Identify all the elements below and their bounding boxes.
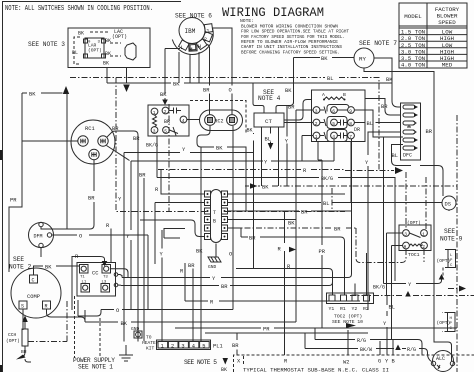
svg-text:G: G	[378, 359, 381, 365]
svg-text:T3: T3	[103, 276, 108, 280]
svg-text:M: M	[189, 47, 192, 53]
wire BK/G lower with arrow	[350, 295, 474, 297]
wire B stub	[392, 340, 394, 355]
svg-text:T1: T1	[80, 276, 85, 280]
wire plug pin3 BR	[228, 210, 353, 212]
svg-text:PL1: PL1	[213, 344, 223, 350]
svg-text:T: T	[213, 210, 216, 216]
DFC pin 3	[403, 121, 415, 125]
svg-text:BK: BK	[386, 77, 393, 83]
svg-text:4: 4	[192, 343, 195, 349]
svg-text:S: S	[21, 304, 24, 310]
svg-text:TOC2 (OPT): TOC2 (OPT)	[334, 314, 362, 320]
wire BK from RC2	[197, 126, 246, 211]
svg-text:R/G: R/G	[357, 338, 366, 344]
svg-text:Y2: Y2	[352, 306, 358, 312]
svg-text:BR: BR	[139, 173, 146, 179]
svg-text:BK: BK	[45, 265, 52, 271]
svg-text:3: 3	[404, 231, 407, 237]
svg-text:BR: BR	[203, 88, 210, 94]
compressor COMP	[11, 268, 61, 318]
terminal R	[43, 301, 51, 309]
wire BR riser 2	[143, 178, 145, 342]
svg-text:R1: R1	[340, 306, 346, 312]
wire plug pin1 right	[228, 193, 346, 195]
terminal L	[179, 40, 190, 50]
terminal M	[189, 43, 197, 51]
CC terminal T1	[80, 265, 89, 274]
defrost sensor DS	[442, 196, 456, 210]
blower control relay	[148, 105, 189, 136]
svg-text:BK/G: BK/G	[373, 285, 385, 291]
svg-text:BR: BR	[381, 104, 388, 110]
field thermostat BR dash-dot	[233, 228, 356, 258]
wire R low-voltage	[185, 211, 360, 355]
svg-text:3: 3	[153, 128, 156, 134]
wire COMP S drop	[22, 309, 24, 330]
DR pin 1	[313, 132, 320, 139]
cabinet panel border (dash-dot) top	[70, 78, 379, 170]
wire RY coil feed BK	[294, 58, 355, 104]
wire R into CC T3	[72, 257, 105, 311]
wire Y to thermostat	[386, 296, 388, 355]
svg-text:BK: BK	[221, 367, 227, 372]
indoor blower motor IBM	[172, 18, 213, 55]
DR pin 3	[313, 107, 320, 114]
wire CCH dash-dot link	[28, 300, 67, 342]
svg-text:SEE NOTE 6: SEE NOTE 6	[175, 13, 212, 20]
DR pin 5	[331, 119, 338, 126]
blower relay RY	[354, 48, 374, 68]
svg-text:BK: BK	[321, 56, 328, 62]
wire R/G run	[315, 328, 422, 355]
field arrow on right border	[459, 286, 466, 292]
RC2 terminal 1	[205, 115, 216, 126]
svg-text:4: 4	[332, 134, 335, 140]
svg-text:H: H	[404, 244, 407, 250]
wire BR riser to PL1	[192, 269, 194, 342]
wire TOC1 pin3 left lead	[387, 233, 403, 296]
blower speed table	[399, 3, 467, 69]
svg-text:TYPICAL THERMOSTAT SUB-BASE N.: TYPICAL THERMOSTAT SUB-BASE N.E.C. CLASS…	[243, 368, 389, 372]
svg-text:BK: BK	[285, 88, 292, 94]
svg-text:BLOWER MOTOR WIRING CONNECTION: BLOWER MOTOR WIRING CONNECTION SHOWN	[241, 23, 338, 29]
contact arm	[170, 127, 179, 136]
wire Y horizontal to DR pin 4	[131, 161, 334, 310]
terminal C	[30, 275, 38, 283]
svg-text:NOTE 9: NOTE 9	[440, 236, 463, 243]
svg-text:DFM: DFM	[34, 234, 43, 240]
svg-text:IBM: IBM	[185, 28, 196, 35]
svg-text:BL: BL	[323, 201, 329, 207]
svg-text:3: 3	[181, 343, 184, 349]
wire DFC pin 6 BL to DS	[392, 145, 444, 197]
wire to plug pin 5	[164, 229, 185, 239]
svg-text:A: A	[322, 92, 325, 98]
plug pins right	[222, 191, 228, 240]
RC1 terminal C	[89, 149, 99, 159]
svg-text:GND: GND	[208, 264, 217, 270]
wire plug pin4 to BK riser	[228, 110, 297, 322]
svg-text:3: 3	[315, 108, 318, 114]
wire DR pin 8 to DFC pin 3 BL	[355, 122, 401, 124]
panel border R dash-dot	[158, 170, 394, 171]
svg-text:8: 8	[349, 121, 352, 127]
DR pin 8	[348, 119, 355, 126]
wire plug pin5 BR lower	[228, 228, 345, 295]
crankcase heater CCH (OPT)	[6, 316, 31, 363]
terminal 1	[204, 24, 213, 33]
svg-text:CCH: CCH	[8, 332, 17, 338]
ground symbol GND near CC	[208, 244, 221, 271]
svg-text:BK: BK	[196, 249, 203, 255]
wire PR left riser	[9, 93, 22, 272]
svg-text:BK: BK	[247, 128, 253, 134]
wire to plug pin 6	[140, 220, 205, 237]
svg-text:(OPT): (OPT)	[437, 320, 451, 326]
wire BK riser to PL1	[200, 147, 202, 342]
wire DR row feeds from left	[284, 100, 313, 162]
svg-text:TO: TO	[146, 335, 152, 341]
pin 5	[163, 127, 170, 134]
svg-text:W2: W2	[343, 360, 349, 366]
DFC pin 5	[403, 138, 415, 142]
wire DR col bottoms	[317, 139, 352, 328]
svg-text:NOTE 4: NOTE 4	[258, 95, 281, 102]
wire IBM M,H leads	[179, 52, 199, 83]
svg-text:O: O	[229, 88, 232, 94]
svg-text:B: B	[343, 92, 346, 98]
svg-text:CHART IN UNIT INSTALLATION INS: CHART IN UNIT INSTALLATION INSTRUCTIONS	[241, 44, 342, 50]
field wiring arrow BK	[223, 358, 229, 365]
wire BK see note 2 to CC	[33, 266, 80, 275]
wire RC1 H to left	[22, 140, 78, 142]
svg-text:BR: BR	[426, 129, 433, 135]
wire RC1 M to BR riser	[107, 131, 138, 342]
svg-text:MED: MED	[442, 62, 453, 69]
CC terminal L1	[81, 284, 90, 293]
RC2 terminal 2	[227, 115, 238, 126]
wire BK bus	[107, 82, 392, 84]
svg-text:PR: PR	[10, 198, 17, 204]
svg-text:CT: CT	[265, 118, 272, 125]
svg-text:BR: BR	[249, 236, 256, 242]
svg-text:1: 1	[161, 343, 164, 349]
svg-text:SEE NOTE 3: SEE NOTE 3	[28, 41, 65, 48]
liquid line sensor capsule	[125, 43, 136, 60]
svg-text:DR: DR	[354, 127, 360, 133]
run capacitor RC2	[200, 110, 243, 131]
wire relay pin4 to RC2	[187, 119, 200, 121]
svg-text:FOR LOW SPEED OPERATION.SEE TA: FOR LOW SPEED OPERATION.SEE TABLE AT RIG…	[241, 29, 349, 35]
pin 4	[180, 116, 187, 123]
svg-text:BR: BR	[221, 284, 228, 290]
cabinet panel border (dash-dot) left	[116, 78, 345, 212]
ambient limit control ALC	[431, 351, 454, 372]
svg-text:BR: BR	[133, 136, 140, 142]
RC1 terminal M	[98, 136, 108, 146]
earth ground symbol	[119, 345, 133, 361]
high pressure control (OPT)	[437, 313, 456, 332]
svg-text:BK: BK	[78, 31, 84, 37]
terminal 2	[203, 32, 213, 42]
DR pin 4	[331, 132, 338, 139]
svg-text:BK/G: BK/G	[146, 143, 158, 149]
plug pins left	[205, 191, 211, 240]
DR pin 7	[348, 132, 355, 139]
low pressure control (OPT)	[437, 250, 456, 279]
svg-text:5: 5	[164, 128, 167, 134]
svg-text:O: O	[116, 308, 119, 314]
defrost termination thermostat TOC1 (OPT)	[399, 220, 431, 258]
power supply leads L1	[74, 296, 76, 358]
svg-text:BK: BK	[216, 146, 223, 152]
contact capacitor mark	[169, 108, 181, 114]
wire DR coil B to DFC pin 2 BR	[365, 99, 401, 116]
svg-text:SPEED: SPEED	[438, 19, 456, 26]
svg-text:1: 1	[315, 134, 318, 140]
wire CC coil to Y bus	[118, 275, 122, 286]
svg-text:O: O	[79, 234, 82, 240]
wire TOC1 pin H left lead	[392, 246, 403, 340]
cabinet panel border (dash-dot) mid vertical	[168, 104, 170, 212]
defrost relay DR	[312, 90, 366, 142]
wire DFM bottom stub	[40, 248, 42, 257]
svg-text:7: 7	[349, 134, 352, 140]
svg-text:BR: BR	[334, 227, 341, 233]
svg-text:WIRING DIAGRAM: WIRING DIAGRAM	[222, 6, 324, 20]
wire R riser mid	[110, 229, 112, 263]
run capacitor RC1	[71, 120, 115, 164]
svg-text:PR: PR	[319, 249, 326, 255]
svg-text:REFER TO BLOWER AIR-FLOW PERFO: REFER TO BLOWER AIR-FLOW PERFORMANCE	[241, 39, 338, 45]
svg-text:BL: BL	[327, 76, 333, 82]
svg-text:COMP: COMP	[27, 294, 40, 300]
svg-text:(OPT): (OPT)	[112, 34, 127, 40]
svg-text:BR: BR	[288, 105, 295, 111]
svg-text:5: 5	[332, 121, 335, 127]
svg-text:NOTE:: NOTE:	[240, 18, 254, 24]
LAR relay (OPT)	[85, 38, 104, 58]
CC coil terminals	[114, 273, 118, 277]
svg-text:BEFORE CHANGING FACTORY SPEED: BEFORE CHANGING FACTORY SPEED SETTING.	[241, 49, 340, 55]
svg-text:DS: DS	[445, 202, 451, 208]
svg-text:BL: BL	[265, 137, 271, 143]
svg-text:5: 5	[202, 343, 205, 349]
pin 1	[151, 108, 158, 115]
svg-text:R: R	[45, 304, 48, 310]
wire BK/G from relay	[156, 136, 158, 178]
DFC pin 1	[403, 105, 415, 109]
svg-text:RC1: RC1	[85, 126, 95, 132]
terminal S	[19, 301, 27, 309]
wire DR pin 9 to DFC pin 5	[355, 110, 404, 284]
svg-text:BK: BK	[103, 61, 109, 67]
DR pin 2	[313, 119, 320, 126]
wire R to plug pin 1	[161, 170, 205, 195]
svg-text:BL: BL	[72, 50, 78, 56]
wire BK/G horizontal	[157, 178, 395, 282]
power supply leads L3	[99, 318, 101, 358]
svg-text:BK: BK	[121, 321, 128, 327]
DR pin 6	[331, 107, 338, 114]
svg-text:CC: CC	[92, 271, 98, 277]
svg-text:B: B	[213, 219, 216, 225]
compressor contactor CC	[77, 263, 118, 297]
svg-text:O: O	[229, 252, 232, 258]
DFC pin 6	[403, 146, 415, 150]
field wire dash-dot stub	[331, 188, 333, 211]
pin 2	[162, 107, 169, 114]
RC1 terminal H	[78, 136, 88, 146]
svg-text:L: L	[180, 45, 183, 51]
svg-text:SEE: SEE	[444, 228, 455, 235]
svg-text:BR: BR	[301, 210, 308, 216]
wire BR to thermostat X	[236, 333, 238, 355]
wire BK/W run	[305, 333, 432, 362]
CC terminal L3	[101, 284, 110, 293]
terminal H	[196, 39, 207, 50]
svg-text:L1: L1	[82, 281, 87, 285]
wire riser x67	[66, 93, 68, 229]
defrost control board DFC	[401, 103, 421, 160]
svg-text:FOR FACTORY SPEED SETTING FOR: FOR FACTORY SPEED SETTING FOR THIS MODEL…	[241, 34, 345, 40]
wire BL plug to DS	[228, 202, 443, 204]
harness plug PL	[205, 190, 228, 243]
svg-text:BK: BK	[29, 92, 36, 98]
svg-text:SEE NOTE 7: SEE NOTE 7	[359, 40, 397, 47]
wire IBM 2 to RC2 (BR)	[208, 44, 210, 114]
svg-text:1: 1	[422, 231, 425, 237]
wire IBM L lead to relay	[165, 49, 180, 100]
svg-text:SEE NOTE 1: SEE NOTE 1	[78, 364, 113, 371]
svg-text:C: C	[32, 278, 35, 284]
wire BR long low-voltage	[121, 273, 333, 286]
svg-text:BK/G: BK/G	[321, 176, 333, 182]
svg-text:6: 6	[332, 108, 335, 114]
defrost override thermostat TOC2 (OPT)	[327, 293, 374, 328]
svg-text:L3: L3	[102, 281, 107, 285]
svg-text:BR: BR	[232, 343, 239, 349]
svg-text:(OPT): (OPT)	[88, 48, 102, 54]
thermostat dashed box	[234, 355, 474, 372]
cabinet panel border (dash-dot) right vertical	[456, 115, 458, 372]
svg-text:1: 1	[153, 110, 156, 116]
svg-text:9: 9	[349, 108, 352, 114]
wire Y long low-voltage	[122, 203, 442, 284]
svg-text:BK: BK	[262, 185, 269, 191]
svg-text:MODEL: MODEL	[404, 13, 422, 20]
field wiring arrow right	[395, 167, 403, 174]
wire to plug pin 2	[155, 203, 205, 265]
wire LAC drops to BK bus	[107, 68, 127, 84]
DR pin 9	[348, 107, 355, 114]
note block	[240, 18, 349, 55]
svg-text:(OPT): (OPT)	[6, 338, 20, 344]
wire TOC2 risers	[236, 253, 367, 295]
svg-text:RY: RY	[359, 56, 366, 63]
arrow into panel	[123, 85, 130, 93]
wire PL1 strip bus	[205, 332, 368, 334]
CC terminal T3	[102, 265, 111, 274]
svg-text:TOC1: TOC1	[408, 252, 420, 258]
wire DFC pin 4 to thermostat Y	[368, 132, 401, 310]
svg-text:BR: BR	[188, 263, 195, 269]
svg-text:SEE NOTE 5: SEE NOTE 5	[184, 359, 217, 366]
svg-text:PR: PR	[263, 327, 270, 333]
DFC pin 2	[403, 113, 415, 117]
dashed blower compartment box	[190, 101, 246, 134]
wire TOC2 to W2	[347, 330, 349, 355]
wire PR bottom run	[175, 327, 457, 329]
border frame	[0, 150, 3, 160]
wire RC1 M to Y node	[107, 146, 130, 161]
svg-text:BR: BR	[164, 119, 170, 125]
wire Y drop from CT lead	[286, 106, 288, 187]
pin 3	[151, 127, 158, 134]
panel border BK dash-dot	[245, 185, 457, 187]
svg-text:SEE: SEE	[13, 256, 24, 263]
low ambient control LAC (OPT) enclosure	[68, 28, 150, 68]
wire G stub	[379, 341, 381, 355]
DR coil	[324, 97, 344, 100]
ground symbol GND heater kit	[131, 326, 159, 352]
svg-text:2: 2	[422, 244, 425, 250]
svg-text:4.0 TON: 4.0 TON	[401, 62, 426, 69]
ground arrow under CT	[268, 143, 274, 150]
wire BK heater feed	[85, 310, 296, 322]
svg-text:BL: BL	[367, 121, 373, 127]
terminal flange arc	[172, 28, 213, 55]
wire CT leads	[253, 83, 294, 113]
svg-text:BL: BL	[392, 153, 398, 159]
wire RC1 C to DFM BR	[41, 160, 94, 229]
wire O bottom run	[78, 126, 233, 316]
wire COMP R to BK	[47, 309, 86, 321]
wire TOC1 bottom leads	[356, 249, 424, 263]
svg-text:KIT: KIT	[146, 346, 155, 352]
svg-text:BR: BR	[21, 349, 27, 355]
defrost thermostat motor DFM	[29, 222, 54, 247]
dashed option wiring box	[74, 37, 80, 64]
heater kit terminal strip PL1	[157, 340, 223, 350]
svg-text:BK: BK	[288, 221, 295, 227]
svg-text:BK: BK	[160, 92, 167, 98]
wire Y upper horizontal	[124, 153, 254, 342]
svg-text:H: H	[198, 44, 201, 50]
svg-text:2: 2	[171, 343, 174, 349]
svg-text:DFC: DFC	[403, 153, 412, 159]
wire DS stub	[448, 210, 450, 212]
svg-text:Y1: Y1	[329, 306, 335, 312]
svg-text:2: 2	[315, 121, 318, 127]
wire O from DFM	[52, 235, 148, 309]
wire CT to ground arrow BL	[262, 127, 279, 186]
wire RY to DFC side BR	[364, 68, 452, 361]
wire Y riser mid	[253, 133, 255, 269]
wire IBM 1 to RC2 (O)	[212, 28, 232, 114]
relay coil	[153, 115, 157, 127]
svg-text:1: 1	[206, 29, 209, 35]
wire Y riser to PL1	[161, 230, 163, 342]
svg-text:BK/W: BK/W	[360, 347, 372, 353]
DFC pin 4	[403, 130, 415, 134]
svg-text:BR: BR	[88, 196, 95, 202]
current transformer CT	[254, 113, 284, 127]
svg-text:NOTE: ALL SWITCHES SHOWN IN CO: NOTE: ALL SWITCHES SHOWN IN COOLING POSI…	[5, 5, 153, 13]
wire BK to LAC with arrow	[22, 92, 63, 94]
svg-text:R/G: R/G	[407, 347, 416, 353]
